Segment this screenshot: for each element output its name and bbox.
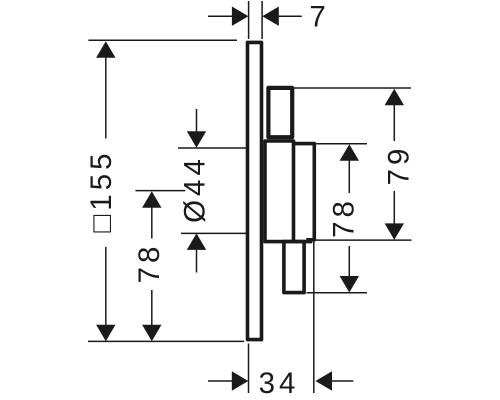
dim 44: arrow up: [187, 233, 206, 250]
dim 78 right: arrow up: [340, 144, 359, 161]
dim 79: lower stem: [393, 191, 395, 224]
svg-text:34: 34: [259, 367, 300, 400]
dim 78 right: lower stem: [348, 246, 350, 276]
dim 79: arrow down: [385, 223, 404, 240]
dim 34: leader left: [208, 380, 232, 382]
dim 44: extension line top: [178, 147, 247, 149]
dim 44: upper stem: [196, 109, 198, 132]
dim 7: arrow pointing left: [262, 7, 279, 26]
svg-text:78: 78: [133, 243, 166, 284]
dim 7: extension line right: [261, 1, 263, 39]
svg-text:79: 79: [383, 145, 416, 186]
svg-text:□155: □155: [85, 149, 118, 232]
dim 44: extension line bottom: [181, 232, 247, 234]
dim 44: lower stem: [196, 250, 198, 273]
dim 34: arrow pointing left: [316, 371, 333, 390]
dim 155: arrow down: [96, 325, 115, 342]
dim 78 right: extension line top: [316, 143, 367, 145]
dim 7: arrow pointing right: [232, 7, 249, 26]
dim 78 left: lower stem: [151, 290, 153, 326]
dim 34: arrow pointing right: [232, 371, 249, 390]
valve sleeve (top narrow box): [268, 88, 292, 137]
dim 79: extension line bottom: [307, 239, 412, 241]
main body bottom edge continuation under rear housing: [295, 240, 312, 244]
dim 79: arrow up: [385, 89, 404, 106]
dim 78 left: arrow down: [142, 325, 161, 342]
dim 79: extension line top (from sleeve corner): [294, 87, 411, 89]
svg-text:78: 78: [327, 197, 360, 238]
dim 155: arrow up: [96, 41, 115, 58]
dim 78 left: arrow up: [142, 191, 161, 208]
dim 155: extension line bottom (shared with dim 78 left): [88, 340, 244, 342]
dim 79: upper stem: [393, 105, 395, 141]
dim 7: leader left: [208, 15, 232, 17]
dim 78 right: upper stem: [348, 161, 350, 194]
dim 34: extension line left (below plate): [248, 344, 250, 394]
rear housing (second box): [294, 144, 314, 240]
dim 34: leader right: [331, 380, 353, 382]
dim 7: extension line left: [248, 1, 250, 39]
dim 78 left: upper stem: [151, 207, 153, 239]
dim 78 right: extension line bottom: [307, 292, 368, 294]
dim 7: leader right: [279, 15, 302, 17]
main valve body (wide box): [265, 141, 294, 242]
dim 155: dimension line upper stem: [105, 57, 107, 139]
dim 78 right: arrow down: [340, 276, 359, 293]
wall plate (escutcheon) side view: [248, 42, 262, 339]
dim 155: dimension line lower stem: [105, 247, 107, 326]
bottom connector (small box): [284, 242, 304, 293]
dim 155: extension line top: [88, 39, 237, 41]
dim 78 left: centre line: [135, 190, 185, 192]
svg-text:7: 7: [309, 0, 329, 33]
dim 44: arrow down: [187, 131, 206, 148]
dim 34: extension line right (below housing): [313, 241, 315, 393]
svg-text:Ø44: Ø44: [179, 155, 212, 223]
